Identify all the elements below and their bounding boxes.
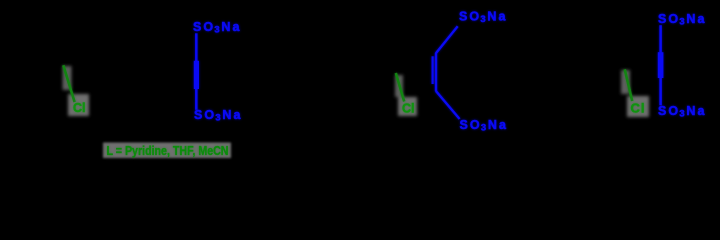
bond S-C (blue, molecule 4) xyxy=(659,25,662,52)
double bond C=C (blue, molecule 4) xyxy=(658,52,664,78)
molecule 4: chloroethylene-disulfonate xyxy=(625,69,646,115)
bond C-Cl (green half, molecule 3) xyxy=(396,73,404,102)
molecule 2: ethylene-1,2-disulfonate disodium xyxy=(193,20,243,124)
svg-text:Na: Na xyxy=(487,9,507,23)
bond C-S (blue) xyxy=(195,89,198,110)
bond C-S diagonal lower (blue) xyxy=(436,91,460,119)
label SO3Na (top, molecule 3) xyxy=(459,9,508,25)
soft blue glow copies of molecule bonds and labels xyxy=(193,20,243,124)
label SO3Na (top, molecule 4) xyxy=(658,12,707,28)
svg-text:Na: Na xyxy=(686,104,706,118)
svg-text:3: 3 xyxy=(480,14,485,25)
svg-text:3: 3 xyxy=(679,17,684,28)
label SO3Na (bottom, molecule 2) xyxy=(194,108,243,124)
svg-text:Na: Na xyxy=(686,12,706,26)
svg-text:3: 3 xyxy=(215,113,220,124)
svg-text:Na: Na xyxy=(222,108,242,122)
label SO3Na (bottom, molecule 3) xyxy=(460,118,509,134)
halo behind molecule 1 Cl label xyxy=(63,66,90,116)
reagent caption text xyxy=(107,144,229,158)
bond S-C (blue) xyxy=(195,33,198,61)
svg-text:L = Pyridine, THF, MeCN: L = Pyridine, THF, MeCN xyxy=(107,144,229,158)
halo behind molecule 4 Cl label xyxy=(621,70,649,117)
svg-text:3: 3 xyxy=(214,25,219,36)
svg-text:Na: Na xyxy=(221,20,241,34)
svg-text:3: 3 xyxy=(481,123,486,134)
bond C-Cl (green half) xyxy=(63,65,74,102)
svg-text:SO: SO xyxy=(193,20,215,34)
bond C-Cl (green half, molecule 4) xyxy=(625,69,633,101)
svg-text:Cl: Cl xyxy=(73,101,86,115)
svg-text:Na: Na xyxy=(488,118,508,132)
halo behind reagent caption xyxy=(103,143,231,159)
label SO3Na (top, molecule 2) xyxy=(193,20,242,36)
halo behind molecule 3 Cl label xyxy=(395,75,417,116)
svg-text:Cl: Cl xyxy=(402,102,415,116)
svg-text:SO: SO xyxy=(658,104,680,118)
svg-text:SO: SO xyxy=(194,108,216,122)
bond S-C diagonal upper (blue) xyxy=(436,26,458,53)
molecule 1: chlorobenzene (ring bonds black, invisible) xyxy=(63,65,85,115)
svg-text:Cl: Cl xyxy=(631,101,646,116)
svg-text:SO: SO xyxy=(459,9,481,23)
double bond C=C vertical (blue) xyxy=(435,53,437,92)
svg-text:SO: SO xyxy=(658,12,680,26)
svg-text:3: 3 xyxy=(679,109,684,120)
double bond C=C (blue) xyxy=(194,61,199,89)
bond C-S (blue, molecule 4) xyxy=(659,78,662,105)
molecule 3: 2-chloroethylene-1,2-disulfonate xyxy=(396,73,415,116)
label SO3Na (bottom, molecule 4) xyxy=(658,104,707,120)
svg-text:SO: SO xyxy=(460,118,482,132)
